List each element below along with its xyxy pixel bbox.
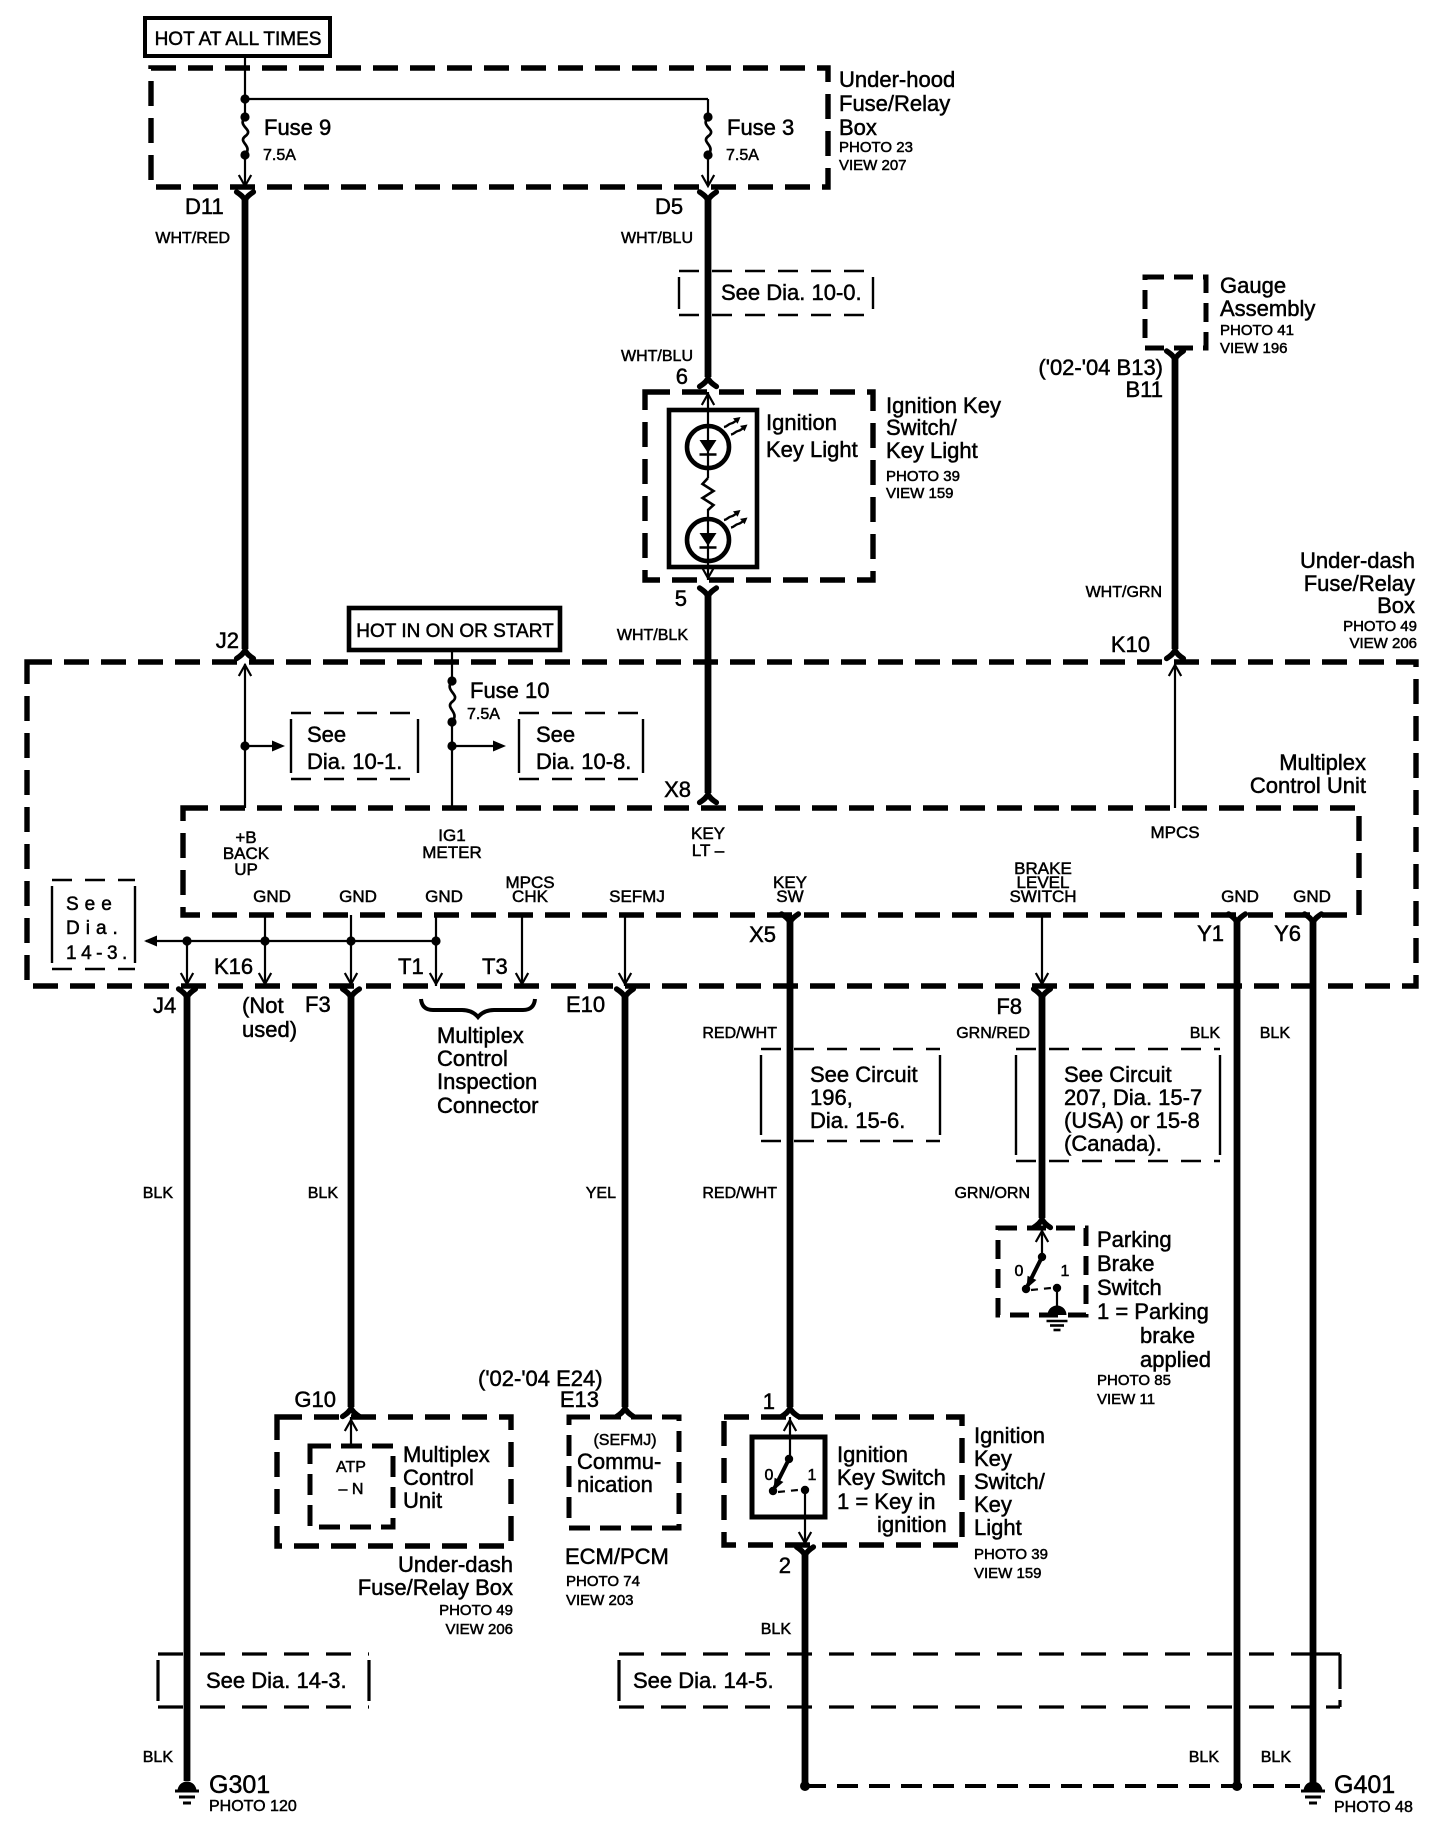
svg-text:E10: E10 (566, 992, 605, 1017)
gauge assembly label (1220, 273, 1315, 357)
svg-text:Fuse 9: Fuse 9 (264, 115, 331, 140)
svg-text:UP: UP (234, 860, 258, 879)
ignition key switch/key light label bottom (974, 1423, 1048, 1582)
wire D5 to key light WHT/BLU (621, 199, 708, 377)
wire 2 to ground bus BLK (761, 1554, 805, 1786)
key light resistor (703, 478, 714, 510)
svg-text:See Dia. 10-0.: See Dia. 10-0. (721, 280, 862, 305)
wire fuse10 to IG1 METER with branch (447, 722, 506, 808)
svg-text:Box: Box (1377, 593, 1415, 618)
svg-text:Fuse/Relay: Fuse/Relay (839, 91, 950, 116)
wire fuse9 to D11 (239, 155, 251, 186)
svg-text:Multiplex: Multiplex (403, 1442, 490, 1467)
bus drop to J4 (181, 941, 193, 986)
parking brake 0 position label (1015, 1263, 1024, 1280)
ATP-N inner box (310, 1446, 393, 1527)
connector E10 (566, 989, 633, 1017)
wire SEFMJ to E10 (619, 915, 631, 986)
svg-text:WHT/BLK: WHT/BLK (617, 627, 688, 644)
svg-text:1: 1 (808, 1467, 817, 1484)
HOT AT ALL TIMES feed box (145, 18, 330, 56)
svg-text:Switch/: Switch/ (974, 1469, 1046, 1494)
svg-text:14-3.: 14-3. (66, 943, 132, 964)
svg-text:used): used) (242, 1017, 297, 1042)
svg-text:See Dia. 14-5.: See Dia. 14-5. (633, 1668, 774, 1693)
svg-text:1 = Parking: 1 = Parking (1097, 1299, 1209, 1324)
SEFMJ communication label (577, 1432, 661, 1497)
wire B11 to K10 WHT/GRN (1086, 358, 1175, 649)
svg-text:VIEW 159: VIEW 159 (886, 485, 954, 502)
svg-text:VIEW 11: VIEW 11 (1097, 1391, 1155, 1408)
svg-text:Connector: Connector (437, 1093, 539, 1118)
svg-text:Ignition: Ignition (974, 1423, 1045, 1448)
svg-text:BLK: BLK (143, 1185, 174, 1202)
svg-text:ATP: ATP (336, 1459, 366, 1476)
svg-text:MPCS: MPCS (1150, 823, 1199, 842)
See Dia. 14-3 reference box (ground bus) (52, 880, 135, 969)
svg-text:See Dia. 14-3.: See Dia. 14-3. (206, 1668, 347, 1693)
svg-text:SEFMJ: SEFMJ (609, 887, 665, 906)
svg-text:BLK: BLK (143, 1749, 174, 1766)
svg-text:LT –: LT – (692, 841, 725, 860)
svg-text:See Circuit: See Circuit (1064, 1062, 1172, 1087)
svg-text:Gauge: Gauge (1220, 273, 1286, 298)
svg-text:VIEW 206: VIEW 206 (445, 1621, 513, 1638)
See Circuit 196 reference box (761, 1049, 940, 1141)
svg-text:2: 2 (779, 1553, 791, 1578)
svg-text:Multiplex: Multiplex (437, 1023, 524, 1048)
svg-text:PHOTO 23: PHOTO 23 (839, 139, 913, 156)
parking brake 1 position label (1061, 1263, 1070, 1280)
pin SEFMJ (609, 887, 665, 906)
svg-text:Key Light: Key Light (886, 438, 978, 463)
svg-text:207, Dia. 15-7: 207, Dia. 15-7 (1064, 1085, 1202, 1110)
wire J4 to G301 BLK (143, 996, 187, 1781)
svg-text:WHT/GRN: WHT/GRN (1086, 584, 1162, 601)
svg-text:Fuse/Relay Box: Fuse/Relay Box (358, 1575, 513, 1600)
svg-text:D11: D11 (185, 194, 224, 219)
svg-text:HOT IN ON OR START: HOT IN ON OR START (356, 621, 554, 642)
fuse F9 7.5A (240, 112, 331, 164)
under-hood fuse/relay box (151, 68, 828, 187)
wire from HOT AT ALL TIMES to fuses (240, 56, 708, 117)
svg-text:Y1: Y1 (1197, 921, 1224, 946)
svg-text:applied: applied (1140, 1347, 1211, 1372)
connector parking brake switch (1034, 1219, 1051, 1228)
svg-text:See Circuit: See Circuit (810, 1062, 918, 1087)
multiplex control unit label (1250, 750, 1366, 798)
connector 2 (779, 1547, 814, 1578)
key light LED 1 (687, 426, 729, 468)
svg-text:ignition: ignition (877, 1512, 947, 1537)
pin +B BACK UP (223, 828, 270, 879)
svg-text:Box: Box (839, 115, 877, 140)
svg-text:B11: B11 (1125, 377, 1163, 402)
ignition switch 1 position label (808, 1467, 817, 1484)
svg-text:VIEW 206: VIEW 206 (1349, 635, 1417, 652)
key light internal wire (702, 392, 714, 580)
svg-text:(Not: (Not (242, 993, 284, 1018)
svg-text:RED/WHT: RED/WHT (702, 1185, 777, 1202)
label not used (242, 993, 297, 1042)
label ('02-'04 E24) (478, 1366, 603, 1391)
pin KEY LT - (691, 824, 725, 860)
svg-text:Switch/: Switch/ (886, 415, 958, 440)
svg-text:BLK: BLK (308, 1185, 339, 1202)
connector 6 ignition key light (676, 364, 717, 389)
pin GND 2 (339, 887, 377, 906)
svg-text:WHT/RED: WHT/RED (155, 230, 230, 247)
svg-text:Under-dash: Under-dash (1300, 548, 1415, 573)
ignition key switch inner box (752, 1437, 825, 1517)
svg-text:PHOTO 74: PHOTO 74 (566, 1573, 640, 1590)
fuse F3 7.5A (703, 112, 794, 164)
connector E13 (560, 1387, 634, 1417)
svg-text:1: 1 (1061, 1263, 1070, 1280)
svg-text:G301: G301 (209, 1771, 270, 1799)
wire 5 to X8 WHT/BLK (617, 595, 708, 793)
gauge assembly box (1145, 277, 1206, 348)
See Dia. 10-8 reference box (519, 713, 643, 779)
wire J2 to +B with branch (239, 664, 285, 808)
ignition key switch / key light outer box (645, 392, 873, 580)
svg-text:SWITCH: SWITCH (1009, 887, 1076, 906)
svg-text:Parking: Parking (1097, 1227, 1172, 1252)
wire Y6 to G401 BLK (1260, 921, 1313, 1782)
connector J2 (216, 628, 254, 659)
svg-text:GRN/RED: GRN/RED (956, 1025, 1030, 1042)
svg-text:Under-hood: Under-hood (839, 67, 955, 92)
multiplex control inspection connector brace (421, 999, 535, 1017)
svg-text:GND: GND (253, 887, 291, 906)
svg-text:nication: nication (577, 1472, 653, 1497)
SEFMJ communication box (569, 1417, 679, 1528)
ground bus wire (144, 936, 441, 947)
svg-text:Key Switch: Key Switch (837, 1465, 946, 1490)
ignition switch 0 position label (765, 1467, 774, 1484)
svg-text:1: 1 (763, 1389, 775, 1414)
svg-text:Ignition: Ignition (837, 1442, 908, 1467)
svg-text:See: See (536, 722, 575, 747)
fuse F10 7.5A (447, 676, 549, 726)
svg-text:T3: T3 (482, 954, 508, 979)
svg-text:5: 5 (675, 586, 687, 611)
svg-text:1 = Key in: 1 = Key in (837, 1489, 935, 1514)
connector Y1 (1197, 914, 1245, 946)
ignition key light inner box (669, 410, 757, 567)
pin GND 1 (253, 887, 291, 906)
svg-text:Assembly: Assembly (1220, 296, 1315, 321)
svg-text:K16: K16 (214, 954, 253, 979)
svg-text:Switch: Switch (1097, 1275, 1162, 1300)
svg-text:GRN/ORN: GRN/ORN (954, 1185, 1030, 1202)
svg-text:VIEW 207: VIEW 207 (839, 157, 907, 174)
svg-text:Control Unit: Control Unit (1250, 773, 1366, 798)
multiplex control unit (under-dash) box (277, 1417, 511, 1546)
svg-text:T1: T1 (398, 954, 424, 979)
key light LED 2 (687, 519, 729, 561)
multiplex control inspection connector label (437, 1023, 539, 1118)
svg-text:Dia. 10-1.: Dia. 10-1. (307, 749, 402, 774)
ignition key switch inner label (837, 1442, 947, 1537)
wire F3 to G10 BLK (308, 996, 351, 1407)
svg-text:Ignition: Ignition (766, 410, 837, 435)
svg-text:BLK: BLK (761, 1621, 792, 1638)
svg-text:YEL: YEL (586, 1185, 616, 1202)
svg-text:See: See (66, 894, 118, 915)
pin GND Y1 (1221, 887, 1259, 906)
parking brake switch box (998, 1228, 1086, 1315)
svg-text:PHOTO 41: PHOTO 41 (1220, 322, 1294, 339)
svg-text:PHOTO 49: PHOTO 49 (439, 1602, 513, 1619)
svg-text:6: 6 (676, 364, 688, 389)
svg-text:Under-dash: Under-dash (398, 1552, 513, 1577)
svg-text:0: 0 (765, 1467, 774, 1484)
svg-text:G401: G401 (1334, 1771, 1395, 1799)
svg-text:Dia.: Dia. (66, 918, 124, 939)
See Dia. 10-1 reference box (291, 713, 418, 779)
svg-text:BLK: BLK (1261, 1749, 1292, 1766)
svg-text:WHT/BLU: WHT/BLU (621, 230, 693, 247)
multiplex control unit box (183, 808, 1359, 915)
wire D11 to J2 WHT/RED (155, 199, 245, 649)
svg-text:CHK: CHK (512, 887, 549, 906)
pin IG1 METER (422, 826, 482, 862)
svg-text:brake: brake (1140, 1323, 1195, 1348)
pin KEY SW (773, 873, 807, 906)
svg-text:Commu-: Commu- (577, 1449, 661, 1474)
See Dia. 10-0 reference box (679, 271, 873, 315)
under-dash fuse/relay box label (1300, 548, 1417, 652)
ignition key switch/key light label (886, 393, 1001, 502)
wire HOT IN ON OR START to fuse 10 (451, 648, 453, 681)
svg-text:Brake: Brake (1097, 1251, 1154, 1276)
svg-text:VIEW 196: VIEW 196 (1220, 340, 1288, 357)
svg-text:Multiplex: Multiplex (1279, 750, 1366, 775)
svg-text:GND: GND (339, 887, 377, 906)
svg-text:HOT AT ALL TIMES: HOT AT ALL TIMES (155, 29, 322, 50)
ground G401 (1301, 1771, 1413, 1816)
wire K10 to MPCS (1169, 664, 1181, 808)
connector D5 (655, 192, 716, 219)
pin MPCS (1150, 823, 1199, 842)
svg-text:RED/WHT: RED/WHT (702, 1025, 777, 1042)
bus drop to F3 (345, 941, 357, 986)
See Circuit 207 reference box (1016, 1049, 1220, 1161)
svg-text:K10: K10 (1111, 632, 1150, 657)
pin MPCS CHK (505, 873, 554, 906)
svg-text:BLK: BLK (1190, 1025, 1221, 1042)
wire MPCS CHK to T3 (482, 915, 528, 986)
under-hood fuse/relay box label (839, 67, 955, 174)
wire fuse3 to D5 (702, 155, 714, 186)
LED2 light emission arrows (724, 510, 748, 528)
svg-text:PHOTO 39: PHOTO 39 (886, 468, 960, 485)
svg-text:PHOTO 49: PHOTO 49 (1343, 618, 1417, 635)
svg-text:See: See (307, 722, 346, 747)
svg-text:(SEFMJ): (SEFMJ) (593, 1432, 656, 1449)
parking brake switch internals (1022, 1228, 1061, 1311)
svg-text:J2: J2 (216, 628, 239, 653)
connector X8 (664, 777, 716, 803)
ATP-N label (336, 1459, 366, 1498)
ignition key switch box (724, 1417, 962, 1545)
svg-text:BLK: BLK (1260, 1025, 1291, 1042)
connector Y6 (1274, 914, 1321, 946)
ECM/PCM label (565, 1544, 669, 1609)
svg-text:GND: GND (425, 887, 463, 906)
bus drop to T1 (398, 941, 442, 986)
connector G10 (294, 1387, 359, 1417)
svg-text:BLK: BLK (1189, 1749, 1220, 1766)
svg-text:Key: Key (974, 1446, 1012, 1471)
svg-text:PHOTO 48: PHOTO 48 (1334, 1799, 1413, 1816)
svg-text:J4: J4 (153, 993, 176, 1018)
connector 5 (675, 586, 717, 611)
wire X5 to ignition key switch RED/WHT (702, 921, 790, 1407)
svg-text:X5: X5 (749, 922, 776, 947)
svg-text:Unit: Unit (403, 1488, 442, 1513)
pin BRAKE LEVEL SWITCH (1009, 859, 1076, 906)
svg-text:VIEW 203: VIEW 203 (566, 1592, 634, 1609)
connector B11 (1038, 351, 1183, 402)
ground bus bottom wire (800, 1781, 1300, 1791)
svg-text:Dia. 15-6.: Dia. 15-6. (810, 1108, 905, 1133)
connector 1 ignition key switch (763, 1389, 799, 1417)
svg-text:0: 0 (1015, 1263, 1024, 1280)
svg-text:F3: F3 (305, 992, 331, 1017)
under-dash fuse/relay box (27, 662, 1416, 986)
wire Y1 to ground bus BLK (1189, 921, 1237, 1786)
svg-text:SW: SW (776, 887, 803, 906)
svg-text:F8: F8 (996, 994, 1022, 1019)
multiplex control unit bottom label (403, 1442, 490, 1513)
connector D11 (185, 192, 253, 219)
svg-text:196,: 196, (810, 1085, 853, 1110)
svg-text:D5: D5 (655, 194, 683, 219)
svg-text:PHOTO 85: PHOTO 85 (1097, 1372, 1171, 1389)
ignition key switch internals (769, 1417, 811, 1543)
svg-text:Control: Control (403, 1465, 474, 1490)
svg-text:Y6: Y6 (1274, 921, 1301, 946)
parking brake switch label (1097, 1227, 1211, 1408)
svg-text:– N: – N (339, 1481, 364, 1498)
See Dia. 14-5 reference box (619, 1654, 1340, 1707)
svg-text:X8: X8 (664, 777, 691, 802)
svg-text:METER: METER (422, 843, 482, 862)
svg-text:Light: Light (974, 1515, 1022, 1540)
svg-text:PHOTO 120: PHOTO 120 (209, 1798, 297, 1815)
bus drop to K16 (not used) (214, 941, 271, 986)
See Dia. 14-3 reference box bottom (158, 1654, 369, 1707)
connector K10 (1111, 632, 1184, 659)
svg-text:ECM/PCM: ECM/PCM (565, 1544, 669, 1569)
svg-text:E13: E13 (560, 1387, 599, 1412)
svg-text:Key: Key (974, 1492, 1012, 1517)
G10 internal wire (345, 1417, 357, 1446)
HOT IN ON OR START feed box (349, 608, 560, 650)
connector X5 (749, 914, 798, 947)
svg-text:Control: Control (437, 1046, 508, 1071)
svg-text:(USA) or 15-8: (USA) or 15-8 (1064, 1108, 1200, 1133)
svg-text:G10: G10 (294, 1387, 336, 1412)
svg-text:Fuse 10: Fuse 10 (470, 678, 550, 703)
pin GND 3 (425, 887, 463, 906)
connector F3 (305, 989, 359, 1017)
GND pin drop wires (265, 915, 436, 941)
svg-text:VIEW 159: VIEW 159 (974, 1565, 1042, 1582)
svg-text:7.5A: 7.5A (263, 147, 296, 164)
connector F8 (996, 989, 1050, 1019)
svg-text:Key Light: Key Light (766, 437, 858, 462)
pin GND Y6 (1293, 887, 1331, 906)
svg-text:(Canada).: (Canada). (1064, 1131, 1162, 1156)
wire E10 to E13 YEL (586, 996, 625, 1407)
svg-text:7.5A: 7.5A (467, 706, 500, 723)
svg-text:PHOTO 39: PHOTO 39 (974, 1546, 1048, 1563)
wire F8 to parking brake switch GRN/RED GRN/ORN (954, 996, 1042, 1218)
LED1 light emission arrows (724, 417, 748, 435)
svg-text:7.5A: 7.5A (726, 147, 759, 164)
under-dash fuse/relay box bottom label (358, 1552, 513, 1638)
svg-text:Inspection: Inspection (437, 1069, 537, 1094)
parking brake internal ground (1047, 1306, 1068, 1331)
svg-text:WHT/BLU: WHT/BLU (621, 348, 693, 365)
wire brake level switch to F8 (1036, 915, 1048, 986)
svg-text:GND: GND (1293, 887, 1331, 906)
svg-text:Fuse 3: Fuse 3 (727, 115, 794, 140)
connector J4 (153, 989, 195, 1018)
ground G301 (175, 1771, 297, 1815)
ignition key light label (766, 410, 858, 462)
svg-text:GND: GND (1221, 887, 1259, 906)
svg-text:Dia. 10-8.: Dia. 10-8. (536, 749, 631, 774)
